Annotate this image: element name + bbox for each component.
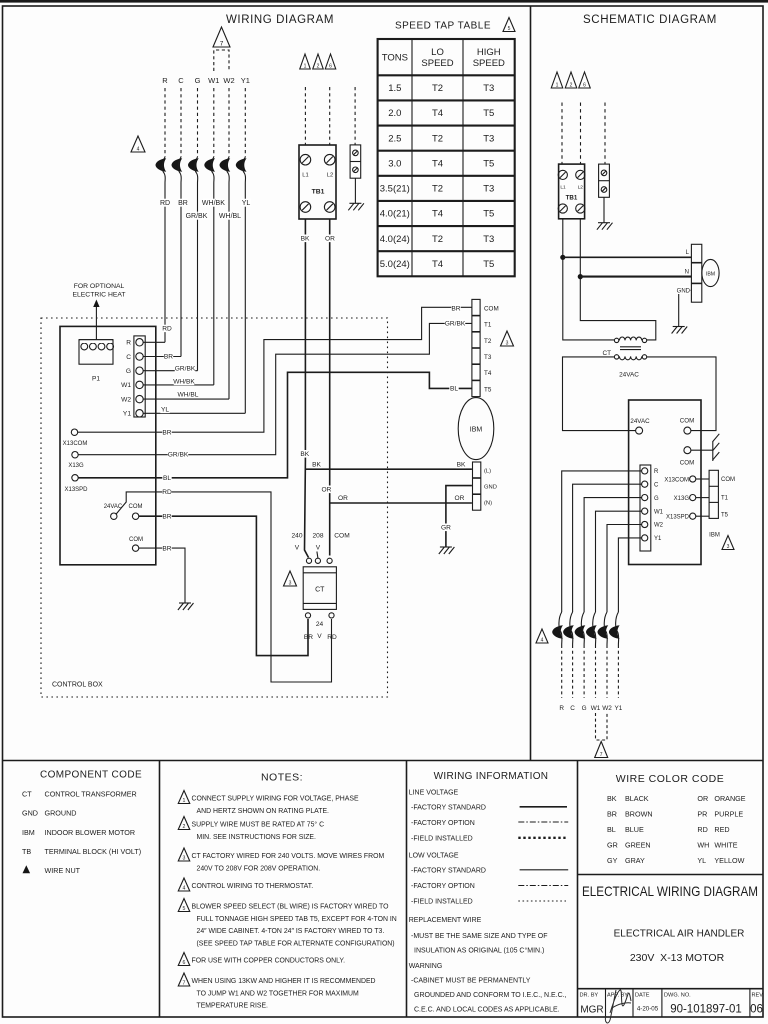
note triangle 4 (left of wire nuts): [131, 136, 145, 152]
svg-text:CT FACTORY WIRED FOR 240 VOLTS: CT FACTORY WIRED FOR 240 VOLTS. MOVE WIR…: [192, 853, 385, 860]
svg-text:6: 6: [329, 64, 332, 70]
svg-text:NOTES:: NOTES:: [261, 772, 303, 784]
note triangle 4 (schem nuts): [536, 629, 548, 643]
svg-text:W1: W1: [654, 509, 664, 515]
table header text: [382, 47, 505, 69]
svg-text:L1: L1: [560, 185, 566, 191]
pin COM (24vac): [129, 504, 143, 519]
svg-text:C: C: [178, 76, 184, 85]
svg-text:1: 1: [556, 83, 559, 89]
svg-text:PR: PR: [697, 810, 707, 819]
ground symbol (BR wire): [178, 603, 194, 610]
svg-text:OR: OR: [338, 495, 348, 502]
svg-text:7: 7: [600, 752, 603, 758]
note triangle 7 (top jumper): [213, 27, 230, 47]
pin 24VAC (schem): [630, 418, 650, 434]
component code entries: [22, 790, 141, 876]
note 6 text: [192, 958, 346, 965]
labels R..Y1 (schem bottom): [559, 705, 622, 712]
svg-text:GREEN: GREEN: [625, 841, 651, 850]
wire nut (W2 wire): [220, 157, 231, 183]
svg-text:4.0(24): 4.0(24): [380, 234, 410, 245]
dashed feeds above TB1 (schem): [562, 103, 605, 165]
svg-text:OR: OR: [325, 236, 335, 243]
pin 24VAC: [104, 504, 123, 519]
note 6 triangle: [178, 953, 190, 966]
svg-text:COM: COM: [484, 305, 499, 312]
svg-text:IBM: IBM: [22, 828, 35, 837]
svg-text:CT: CT: [602, 350, 611, 357]
svg-text:WH/BK: WH/BK: [173, 379, 195, 386]
svg-text:4-20-05: 4-20-05: [637, 1006, 659, 1013]
svg-text:T4: T4: [432, 158, 443, 169]
wire nut (R wire): [156, 157, 167, 183]
svg-text:X13COM: X13COM: [63, 441, 88, 447]
svg-text:BK: BK: [301, 236, 310, 243]
svg-text:TERMINAL BLOCK (HI VOLT): TERMINAL BLOCK (HI VOLT): [45, 847, 142, 856]
svg-text:(N): (N): [484, 501, 492, 507]
svg-text:GR/BK: GR/BK: [445, 320, 466, 327]
divider wiring-info/titleblock: [577, 761, 579, 1018]
wire BL: X13SPD to strip T5: [78, 372, 472, 478]
wire nut (schem R): [552, 612, 563, 645]
note triangle 2 (schem): [565, 72, 577, 88]
wire OR: TB1 L2 to CT COM + motor (N): [329, 219, 331, 556]
svg-text:COM: COM: [721, 477, 735, 483]
svg-text:T2: T2: [432, 234, 443, 245]
svg-text:L2: L2: [578, 185, 584, 191]
svg-text:WIRE NUT: WIRE NUT: [45, 866, 81, 875]
wire GR: motor GND to ground: [446, 486, 472, 547]
svg-text:FOR USE WITH COPPER CONDUCTORS: FOR USE WITH COPPER CONDUCTORS ONLY.: [192, 958, 346, 965]
divider component/notes: [159, 761, 161, 1018]
svg-text:CONTROL BOX: CONTROL BOX: [52, 682, 103, 689]
svg-text:1: 1: [183, 798, 186, 804]
note 1 text: [192, 796, 359, 815]
svg-text:CT: CT: [22, 790, 32, 799]
svg-text:6: 6: [183, 960, 186, 966]
svg-text:GR/BK: GR/BK: [168, 452, 189, 459]
svg-text:GROUND: GROUND: [45, 809, 77, 818]
svg-text:X13SPD: X13SPD: [666, 515, 690, 521]
svg-text:RED: RED: [714, 825, 729, 834]
svg-text:PURPLE: PURPLE: [714, 810, 743, 819]
wire nut (schem W1): [586, 612, 597, 645]
svg-text:7: 7: [220, 41, 224, 48]
svg-text:YELLOW: YELLOW: [714, 856, 744, 865]
table rows text: [380, 83, 495, 270]
wire N to motor: [580, 276, 691, 278]
svg-text:BK: BK: [607, 794, 617, 803]
svg-text:BR: BR: [607, 810, 617, 819]
svg-text:SPEED: SPEED: [421, 58, 453, 69]
control box dotted outline: [41, 318, 388, 697]
svg-text:INDOOR BLOWER MOTOR: INDOOR BLOWER MOTOR: [45, 828, 136, 837]
ground symbol (schem TB1 lug): [597, 223, 613, 230]
svg-text:P1: P1: [92, 376, 100, 383]
svg-text:BR: BR: [451, 306, 460, 313]
svg-text:N: N: [685, 270, 689, 276]
svg-text:GROUNDED AND CONFORM TO I.E.C.: GROUNDED AND CONFORM TO I.E.C., N.E.C.,: [414, 992, 567, 999]
svg-text:2.0: 2.0: [388, 108, 401, 119]
svg-text:V: V: [317, 633, 322, 640]
svg-text:YL: YL: [161, 407, 169, 414]
svg-text:TB: TB: [22, 847, 31, 856]
wire L2 feed: [580, 219, 656, 340]
svg-text:T2: T2: [432, 83, 443, 94]
svg-text:WH/BK: WH/BK: [202, 200, 225, 207]
svg-text:2: 2: [183, 824, 186, 830]
motor tap block COM/T1/T5: [709, 470, 718, 518]
svg-text:C: C: [126, 354, 131, 361]
note triangle 7 (schem): [595, 742, 608, 758]
note triangle 1 (schem): [551, 72, 563, 88]
note triangle 2: [313, 54, 324, 69]
svg-text:BR: BR: [162, 546, 171, 553]
svg-text:G: G: [126, 368, 131, 375]
svg-text:2: 2: [570, 83, 573, 89]
svg-text:AND HERTZ SHOWN ON RATING PLAT: AND HERTZ SHOWN ON RATING PLATE.: [197, 808, 330, 815]
svg-text:1: 1: [304, 64, 307, 70]
svg-text:W1: W1: [121, 382, 131, 389]
svg-text:X13COM: X13COM: [664, 477, 689, 483]
svg-text:R: R: [162, 76, 168, 85]
svg-text:L1: L1: [302, 173, 308, 179]
svg-text:IBM: IBM: [709, 533, 720, 539]
svg-text:T4: T4: [432, 108, 443, 119]
wire nut (schem Y1): [609, 612, 620, 645]
wire nut (G wire): [188, 157, 199, 183]
pin X13G: [68, 452, 84, 470]
svg-text:4: 4: [541, 638, 544, 644]
note triangle 3 (CT): [284, 571, 297, 586]
junction L2: [578, 274, 583, 279]
wire motor GND to ground: [679, 290, 692, 326]
svg-text:-MUST BE THE SAME SIZE AND TYP: -MUST BE THE SAME SIZE AND TYPE OF: [411, 933, 548, 940]
wire nut (Y1 wire): [236, 157, 247, 183]
motor IBM (schem): [702, 259, 719, 286]
svg-text:BK: BK: [457, 462, 466, 469]
svg-text:1.5: 1.5: [388, 83, 401, 94]
labels COM T1 T5 (tap block): [721, 477, 735, 519]
svg-text:CONNECT SUPPLY WIRING FOR VOLT: CONNECT SUPPLY WIRING FOR VOLTAGE, PHASE: [192, 796, 359, 803]
svg-text:T2: T2: [432, 184, 443, 195]
divider notes/wiring-info: [406, 761, 408, 1018]
svg-text:X13SPD: X13SPD: [64, 487, 88, 493]
wires terminals to risers: [143, 342, 245, 413]
labels BR/GR\/BK/BL/RD at board edge: [162, 429, 189, 553]
svg-text:BL: BL: [607, 825, 616, 834]
board terminal labels: [121, 340, 131, 418]
svg-text:WIRING INFORMATION: WIRING INFORMATION: [434, 771, 549, 782]
svg-text:IBM: IBM: [470, 427, 483, 434]
svg-text:C: C: [570, 705, 575, 712]
note 4 text: [192, 883, 314, 890]
svg-text:WH/BL: WH/BL: [219, 213, 241, 220]
svg-text:3: 3: [506, 341, 509, 347]
control transformer CT (schem): [602, 337, 646, 379]
svg-text:GND: GND: [22, 809, 38, 818]
svg-text:T5: T5: [483, 209, 494, 220]
svg-text:TONS: TONS: [382, 53, 408, 64]
terminal block TB1 (wiring): [299, 145, 336, 219]
note 5 text: [192, 904, 397, 948]
note 4 triangle: [178, 878, 190, 891]
svg-text:OR: OR: [697, 794, 708, 803]
svg-text:-FIELD INSTALLED: -FIELD INSTALLED: [411, 835, 473, 842]
svg-text:BLACK: BLACK: [625, 794, 649, 803]
svg-text:MIN. SEE INSTRUCTIONS FOR SIZE: MIN. SEE INSTRUCTIONS FOR SIZE.: [197, 834, 317, 841]
text FOR OPTIONAL ELECTRIC HEAT: [72, 283, 125, 299]
svg-text:SPEED: SPEED: [473, 58, 505, 69]
svg-text:SUPPLY WIRE MUST BE RATED AT 7: SUPPLY WIRE MUST BE RATED AT 75° C: [192, 821, 325, 829]
svg-text:(L): (L): [484, 469, 491, 475]
motor lower strip (L) GND (N): [473, 462, 481, 510]
svg-text:Y1: Y1: [654, 536, 662, 542]
svg-text:REPLACEMENT WIRE: REPLACEMENT WIRE: [409, 917, 482, 924]
svg-text:Y1: Y1: [123, 411, 131, 418]
svg-text:BR: BR: [162, 430, 171, 437]
svg-text:(SEE SPEED TAP TABLE FOR ALTER: (SEE SPEED TAP TABLE FOR ALTERNATE CONFI…: [197, 940, 395, 947]
svg-text:24″ WIDE CABINET. 4-TON 24″ IS: 24″ WIDE CABINET. 4-TON 24″ IS FACTORY W…: [197, 928, 385, 935]
svg-text:T4: T4: [432, 209, 443, 220]
svg-text:BL: BL: [163, 475, 171, 482]
svg-text:R: R: [126, 340, 131, 347]
svg-text:90-101897-01: 90-101897-01: [670, 1004, 742, 1016]
svg-text:4: 4: [137, 147, 140, 153]
note triangle 3 (strip): [501, 331, 514, 346]
wire nut glyph (legend): [23, 865, 31, 873]
wire BR: lower COM to ground: [139, 548, 185, 603]
svg-text:06: 06: [750, 1004, 763, 1016]
svg-text:T5: T5: [484, 386, 492, 393]
svg-text:CT: CT: [315, 587, 325, 594]
svg-text:G: G: [582, 705, 587, 712]
svg-text:24VAC: 24VAC: [630, 418, 650, 425]
note 1 triangle: [178, 791, 190, 804]
svg-text:YL: YL: [242, 200, 251, 207]
control transformer CT (wiring): [303, 558, 336, 618]
note triangle 6 (schem): [579, 72, 591, 88]
wire GR/BK: X13G to strip T1: [78, 323, 472, 454]
svg-text:SPEED TAP TABLE: SPEED TAP TABLE: [395, 21, 491, 32]
svg-text:COM: COM: [129, 504, 143, 510]
svg-text:GR/BK: GR/BK: [175, 366, 196, 373]
svg-text:3: 3: [183, 856, 186, 862]
svg-text:ORANGE: ORANGE: [714, 794, 745, 803]
svg-text:WIRING DIAGRAM: WIRING DIAGRAM: [226, 14, 334, 26]
svg-text:C.E.C. AND LOCAL CODES AS APPL: C.E.C. AND LOCAL CODES AS APPLICABLE.: [414, 1007, 560, 1014]
svg-text:DATE: DATE: [635, 993, 650, 999]
svg-text:R: R: [654, 469, 659, 475]
svg-text:3.0: 3.0: [388, 158, 401, 169]
line samples: [518, 807, 568, 901]
svg-text:COM: COM: [334, 533, 349, 540]
note triangle 6: [325, 54, 336, 69]
svg-text:REV: REV: [752, 993, 764, 999]
svg-text:-FACTORY OPTION: -FACTORY OPTION: [411, 820, 475, 827]
svg-text:FULL TONNAGE HIGH SPEED TAB T5: FULL TONNAGE HIGH SPEED TAB T5, EXCEPT F…: [197, 916, 397, 923]
dashed jumper bracket W1-W2 (schem): [596, 713, 608, 740]
motor speed-tap strip COM..T5: [472, 299, 480, 396]
svg-text:WH/BL: WH/BL: [178, 392, 199, 399]
svg-text:LOW VOLTAGE: LOW VOLTAGE: [409, 853, 459, 860]
svg-text:RD: RD: [162, 489, 172, 496]
pin COM lower (schem) + chassis gnd: [680, 434, 720, 467]
terminal block TB1 (schem): [558, 164, 585, 219]
svg-text:5: 5: [183, 906, 186, 912]
thermostat terminal labels: [162, 76, 250, 85]
wire nut (schem C): [563, 612, 574, 645]
ground symbol (GR wire): [439, 547, 455, 554]
svg-text:WHEN USING 13KW AND HIGHER IT: WHEN USING 13KW AND HIGHER IT IS RECOMME…: [192, 978, 376, 985]
note triangle 3 (schem): [722, 536, 734, 550]
svg-text:BR: BR: [178, 200, 188, 207]
note 2 triangle: [178, 817, 190, 830]
svg-text:DR. BY: DR. BY: [580, 993, 599, 999]
svg-text:L2: L2: [327, 173, 333, 179]
wire BK: TB1 L1 to CT 240 + motor (L): [305, 219, 309, 558]
svg-text:-FACTORY STANDARD: -FACTORY STANDARD: [411, 805, 486, 812]
thermostat field wiring (dashed): [165, 88, 245, 157]
svg-text:BR: BR: [162, 514, 171, 521]
svg-text:C: C: [654, 482, 659, 488]
svg-text:2: 2: [317, 64, 320, 70]
connector P1: [79, 340, 114, 383]
svg-text:T4: T4: [432, 259, 443, 270]
svg-text:DWG. NO.: DWG. NO.: [664, 993, 691, 999]
wiring information text: [409, 790, 567, 1014]
svg-text:CONTROL TRANSFORMER: CONTROL TRANSFORMER: [45, 790, 137, 799]
wire labels at board (RD..YL): [160, 325, 198, 414]
pin COM (lower): [129, 537, 143, 551]
svg-text:OR: OR: [322, 487, 332, 494]
speed tap table grid: [378, 39, 515, 276]
svg-text:FOR OPTIONAL: FOR OPTIONAL: [74, 283, 125, 290]
wires X13 pins to tap block: [696, 479, 709, 516]
svg-text:V: V: [316, 545, 321, 552]
svg-text:WH: WH: [697, 841, 709, 850]
wire color code entries: [607, 794, 746, 865]
svg-text:BL: BL: [450, 386, 458, 393]
svg-text:BLOWER SPEED SELECT (BL WIRE): BLOWER SPEED SELECT (BL WIRE) IS FACTORY…: [192, 904, 390, 911]
ground symbol (below TB1 lug): [348, 203, 364, 210]
line-voltage field wiring dashed (TB1): [305, 87, 329, 145]
svg-text:ELECTRICAL WIRING DIAGRAM: ELECTRICAL WIRING DIAGRAM: [582, 884, 758, 899]
svg-text:W2: W2: [121, 396, 131, 403]
svg-text:T1: T1: [484, 322, 492, 329]
svg-text:24VAC: 24VAC: [619, 372, 639, 379]
svg-text:SCHEMATIC DIAGRAM: SCHEMATIC DIAGRAM: [583, 14, 717, 26]
thermostat wires into control box: [165, 183, 245, 413]
svg-text:X13G: X13G: [68, 463, 84, 469]
svg-text:6: 6: [583, 83, 586, 89]
arrow to optional electric heat: [93, 300, 99, 340]
labels 240V 208V above CT: [291, 533, 323, 552]
ground lug block (wiring): [350, 87, 361, 203]
svg-text:GR: GR: [441, 525, 451, 532]
wire L1 feed: [563, 219, 615, 340]
labels L N GND: [677, 250, 691, 295]
svg-text:T3: T3: [484, 354, 492, 361]
motor terminal block (schem): [691, 244, 701, 302]
wire CT secondary left to 24VAC: [563, 357, 636, 431]
svg-text:Y1: Y1: [241, 76, 250, 85]
svg-text:BR: BR: [304, 634, 313, 641]
junction L1: [560, 255, 565, 260]
note triangle 1: [300, 54, 311, 69]
svg-text:YL: YL: [697, 856, 706, 865]
wire L to motor: [563, 256, 692, 258]
strip labels R..Y1 (schem): [654, 469, 664, 542]
svg-text:T3: T3: [483, 184, 494, 195]
pin X13SPD (schem): [666, 513, 696, 520]
svg-text:INSULATION AS ORIGINAL (105 C°: INSULATION AS ORIGINAL (105 C°MIN.): [414, 947, 544, 955]
svg-text:-FACTORY OPTION: -FACTORY OPTION: [411, 883, 475, 890]
svg-text:G: G: [654, 496, 659, 502]
svg-text:4.0(21): 4.0(21): [380, 209, 410, 220]
svg-text:T4: T4: [484, 370, 492, 377]
svg-text:-FACTORY STANDARD: -FACTORY STANDARD: [411, 867, 486, 874]
svg-text:T5: T5: [483, 108, 494, 119]
svg-text:W2: W2: [654, 523, 664, 529]
title block divider: [578, 874, 764, 876]
wires board R..Y1 to wire nuts: [562, 471, 642, 612]
208V stub: [317, 552, 318, 559]
note 2 text: [192, 821, 325, 841]
svg-text:240V TO 208V FOR 208V OPERATIO: 240V TO 208V FOR 208V OPERATION.: [197, 865, 321, 872]
board terminal strip R..Y1 (schem): [640, 465, 651, 551]
svg-text:5.0(24): 5.0(24): [380, 259, 410, 270]
note 5 triangle: [178, 899, 190, 912]
svg-text:LO: LO: [431, 47, 444, 58]
svg-text:240: 240: [291, 533, 302, 540]
svg-text:3.5(21): 3.5(21): [380, 184, 410, 195]
svg-text:Y1: Y1: [614, 705, 622, 712]
svg-text:BLUE: BLUE: [625, 825, 644, 834]
svg-text:W2: W2: [223, 76, 234, 85]
svg-text:IBM: IBM: [706, 272, 715, 278]
svg-text:GRAY: GRAY: [625, 856, 645, 865]
svg-text:208: 208: [312, 533, 323, 540]
svg-text:WHITE: WHITE: [714, 841, 737, 850]
svg-text:T5: T5: [721, 513, 729, 519]
ground lug block (schem): [599, 164, 610, 223]
svg-text:ELECTRICAL AIR HANDLER: ELECTRICAL AIR HANDLER: [614, 929, 745, 940]
svg-text:HIGH: HIGH: [477, 47, 501, 58]
svg-text:T3: T3: [483, 133, 494, 144]
svg-text:OR: OR: [455, 495, 465, 502]
svg-text:COMPONENT CODE: COMPONENT CODE: [40, 770, 142, 781]
svg-text:BK: BK: [312, 462, 321, 469]
svg-text:230V X-13 MOTOR: 230V X-13 MOTOR: [630, 952, 725, 964]
svg-text:T3: T3: [483, 83, 494, 94]
wire nut (W1 wire): [204, 157, 215, 183]
svg-text:BK: BK: [300, 451, 309, 458]
svg-text:TEMPERATURE RISE.: TEMPERATURE RISE.: [197, 1003, 269, 1010]
svg-text:W2: W2: [602, 705, 612, 712]
pin X13SPD: [64, 475, 88, 493]
svg-text:G: G: [195, 76, 201, 85]
svg-text:W1: W1: [591, 705, 601, 712]
svg-text:RD: RD: [160, 200, 170, 207]
svg-text:WIRE COLOR CODE: WIRE COLOR CODE: [616, 773, 724, 785]
top edge dark strip: [0, 0, 768, 3]
svg-text:V: V: [295, 545, 300, 552]
svg-text:LINE VOLTAGE: LINE VOLTAGE: [409, 790, 459, 797]
note 3 text: [192, 853, 385, 872]
svg-text:3: 3: [727, 544, 730, 550]
